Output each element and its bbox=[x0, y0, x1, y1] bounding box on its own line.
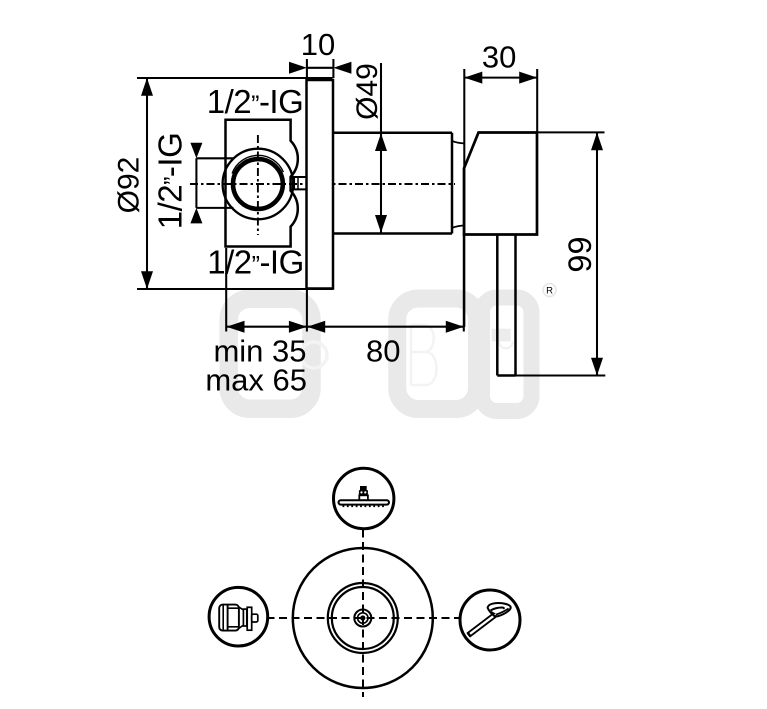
svg-text:80: 80 bbox=[366, 334, 400, 369]
svg-text:Ø49: Ø49 bbox=[351, 63, 384, 120]
svg-text:R: R bbox=[546, 285, 553, 296]
svg-text:Ø92: Ø92 bbox=[113, 157, 146, 214]
svg-text:10: 10 bbox=[301, 27, 335, 62]
svg-text:99: 99 bbox=[562, 236, 598, 272]
svg-text:max 65: max 65 bbox=[205, 363, 307, 398]
svg-text:30: 30 bbox=[482, 40, 516, 75]
